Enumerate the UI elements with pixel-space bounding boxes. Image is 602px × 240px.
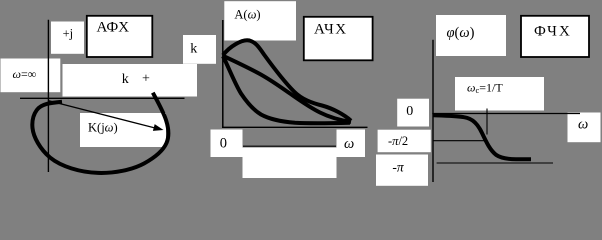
label box omega (axis) bbox=[337, 130, 366, 158]
blank box bottom bbox=[243, 148, 337, 179]
label box -pi/2 bbox=[378, 130, 431, 153]
omega axis (horizontal at 0 level) bbox=[432, 113, 580, 115]
svg-text:АФХ: АФХ bbox=[97, 20, 130, 36]
underline segment below axis bbox=[243, 145, 336, 147]
label box -pi bbox=[376, 155, 428, 186]
arrowhead bbox=[153, 124, 164, 131]
svg-text:0: 0 bbox=[406, 104, 413, 119]
svg-text:ωc=1/T: ωc=1/T bbox=[467, 80, 503, 95]
svg-text:A(ω): A(ω) bbox=[234, 8, 260, 22]
label box 0 (origin) bbox=[211, 130, 243, 158]
-pi level line bbox=[437, 162, 553, 164]
steep monotone amplitude curve bbox=[223, 56, 350, 123]
title box ФЧХ bbox=[521, 16, 589, 57]
svg-text:АЧХ: АЧХ bbox=[314, 22, 348, 38]
svg-text:+: + bbox=[142, 72, 150, 87]
label box A(omega) bbox=[224, 1, 296, 40]
title box АФХ bbox=[87, 16, 153, 57]
A axis (vertical) bbox=[222, 20, 224, 128]
title box АЧХ bbox=[304, 17, 373, 61]
hodograph loop curve bbox=[32, 93, 168, 173]
svg-text:0: 0 bbox=[220, 136, 227, 152]
label box phi(omega) bbox=[436, 15, 506, 56]
svg-text:-π: -π bbox=[392, 159, 405, 174]
label box K(j omega) bbox=[80, 113, 166, 147]
phase S-curve bbox=[434, 115, 532, 159]
-pi/2 level line bbox=[433, 140, 485, 142]
svg-text:K(jω): K(jω) bbox=[88, 120, 118, 134]
label box omega_c = 1/T bbox=[455, 77, 544, 111]
label box k (gain) bbox=[183, 35, 216, 64]
amplitude curve with resonance peak bbox=[223, 40, 351, 120]
label box +j bbox=[51, 22, 84, 54]
omega_c tick line bbox=[486, 109, 488, 135]
real axis (horizontal) bbox=[20, 97, 185, 99]
imaginary axis (vertical) bbox=[47, 20, 49, 172]
svg-text:ФЧХ: ФЧХ bbox=[534, 23, 572, 39]
svg-text:+j: +j bbox=[63, 26, 74, 40]
middle gentle amplitude curve bbox=[223, 56, 351, 122]
svg-text:ω: ω bbox=[578, 117, 588, 133]
svg-text:k: k bbox=[190, 42, 197, 57]
label box k + (real axis labels) bbox=[63, 64, 198, 97]
phi axis (vertical) bbox=[432, 40, 434, 182]
label box 0 bbox=[397, 99, 429, 127]
arrow K(j omega) vector bbox=[49, 101, 156, 128]
label box omega=infinity bbox=[1, 59, 61, 93]
label box omega (axis) bbox=[568, 113, 601, 143]
svg-text:ω=∞: ω=∞ bbox=[13, 67, 37, 81]
svg-text:-π/2: -π/2 bbox=[388, 134, 408, 148]
svg-text:φ(ω): φ(ω) bbox=[447, 25, 475, 41]
omega axis (horizontal) bbox=[222, 126, 368, 128]
svg-text:k: k bbox=[122, 72, 129, 87]
svg-text:ω: ω bbox=[344, 136, 354, 152]
